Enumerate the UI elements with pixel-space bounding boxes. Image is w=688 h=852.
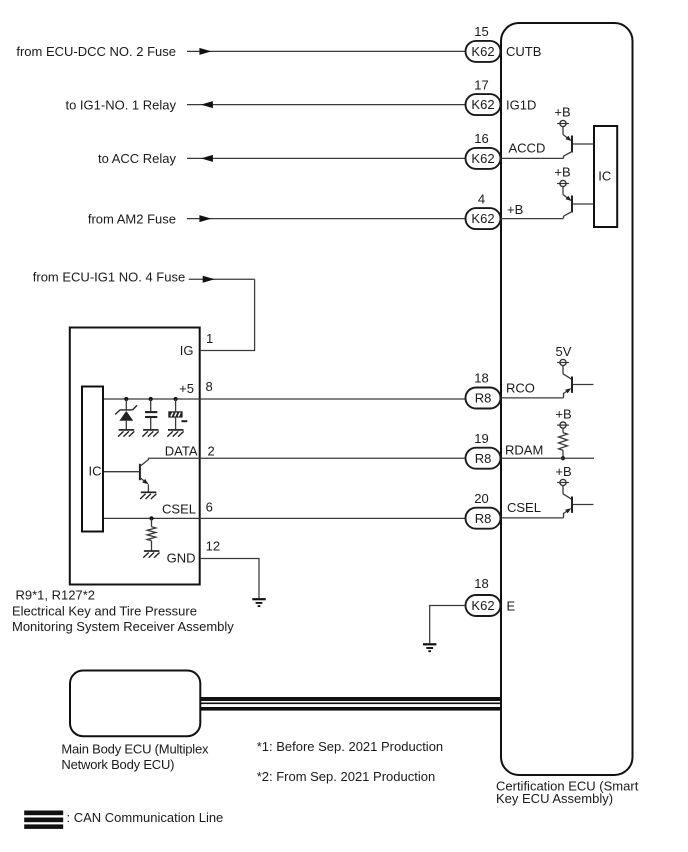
svg-text:DATA: DATA xyxy=(165,443,198,458)
svg-text:Main Body ECU (Multiplex: Main Body ECU (Multiplex xyxy=(61,741,209,756)
svg-text:CSEL: CSEL xyxy=(162,501,196,516)
svg-text:17: 17 xyxy=(474,77,488,92)
svg-text:19: 19 xyxy=(474,431,488,446)
svg-text:6: 6 xyxy=(206,500,213,515)
svg-text:4: 4 xyxy=(478,191,485,206)
svg-text:+B: +B xyxy=(555,464,571,479)
svg-text:+B: +B xyxy=(554,104,570,119)
svg-text:IG1D: IG1D xyxy=(506,97,536,112)
svg-text:CSEL: CSEL xyxy=(507,500,541,515)
svg-text:from ECU-DCC NO. 2 Fuse: from ECU-DCC NO. 2 Fuse xyxy=(16,44,176,59)
svg-text:K62: K62 xyxy=(471,211,494,226)
svg-text:: CAN Communication Line: : CAN Communication Line xyxy=(67,810,224,825)
svg-text:Monitoring System Receiver Ass: Monitoring System Receiver Assembly xyxy=(12,619,234,634)
svg-text:K62: K62 xyxy=(471,598,494,613)
svg-text:R9*1, R127*2: R9*1, R127*2 xyxy=(16,588,96,603)
svg-text:IG: IG xyxy=(180,343,194,358)
svg-text:12: 12 xyxy=(206,538,220,553)
svg-text:CUTB: CUTB xyxy=(506,44,541,59)
svg-text:+B: +B xyxy=(555,407,571,422)
svg-text:16: 16 xyxy=(474,131,488,146)
svg-text:2: 2 xyxy=(208,443,215,458)
svg-text:Key ECU Assembly): Key ECU Assembly) xyxy=(496,791,613,806)
svg-text:Network Body ECU): Network Body ECU) xyxy=(61,757,174,772)
svg-text:to IG1-NO. 1 Relay: to IG1-NO. 1 Relay xyxy=(65,97,176,112)
svg-text:K62: K62 xyxy=(471,97,494,112)
svg-text:IC: IC xyxy=(89,464,102,479)
svg-text:*2: From Sep. 2021 Production: *2: From Sep. 2021 Production xyxy=(257,769,436,784)
svg-text:to ACC Relay: to ACC Relay xyxy=(98,151,177,166)
svg-text:5V: 5V xyxy=(556,344,572,359)
svg-text:R8: R8 xyxy=(475,391,492,406)
svg-text:from AM2 Fuse: from AM2 Fuse xyxy=(88,211,176,226)
svg-text:RCO: RCO xyxy=(506,381,535,396)
svg-text:GND: GND xyxy=(167,551,196,566)
svg-text:R8: R8 xyxy=(475,451,492,466)
svg-text:15: 15 xyxy=(474,24,488,39)
svg-text:+B: +B xyxy=(507,202,523,217)
svg-text:8: 8 xyxy=(206,379,213,394)
svg-text:1: 1 xyxy=(206,331,213,346)
svg-text:+B: +B xyxy=(554,164,570,179)
svg-text:18: 18 xyxy=(474,371,488,386)
svg-text:IC: IC xyxy=(598,169,611,184)
svg-text:ACCD: ACCD xyxy=(509,141,546,156)
svg-text:+5: +5 xyxy=(179,381,194,396)
svg-text:18: 18 xyxy=(474,576,488,591)
svg-text:K62: K62 xyxy=(471,151,494,166)
svg-text:K62: K62 xyxy=(471,44,494,59)
svg-text:from ECU-IG1 NO. 4 Fuse: from ECU-IG1 NO. 4 Fuse xyxy=(33,269,185,284)
svg-text:*1: Before Sep. 2021 Productio: *1: Before Sep. 2021 Production xyxy=(257,739,443,754)
svg-text:Electrical Key and Tire Pressu: Electrical Key and Tire Pressure xyxy=(12,603,197,618)
svg-text:R8: R8 xyxy=(475,511,492,526)
svg-text:RDAM: RDAM xyxy=(505,442,543,457)
svg-text:E: E xyxy=(507,598,516,613)
svg-text:20: 20 xyxy=(474,491,488,506)
